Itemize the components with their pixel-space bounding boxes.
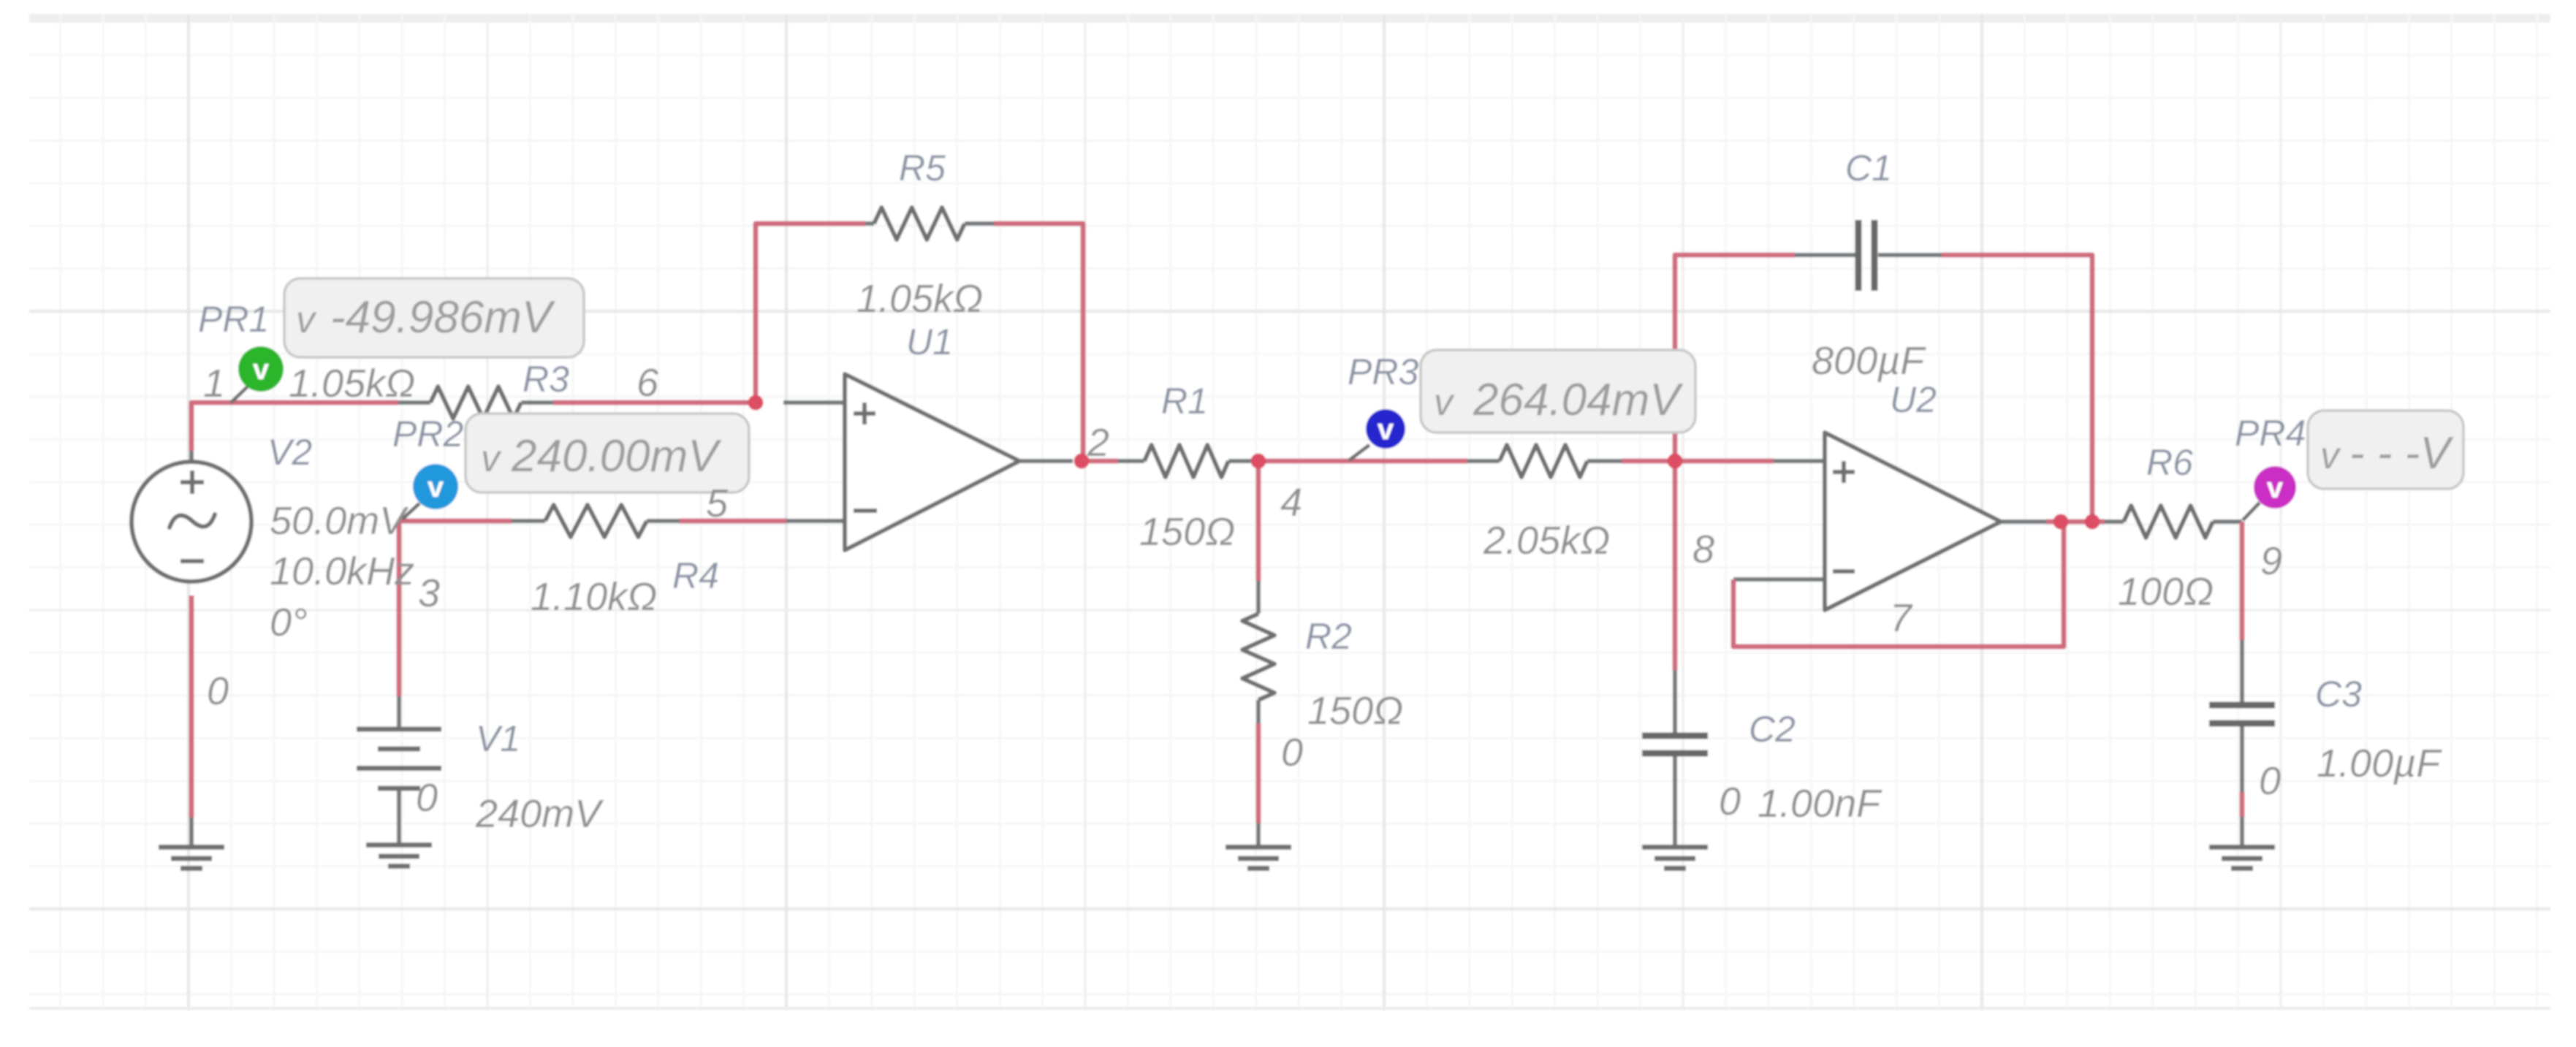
- svg-text:v: v: [253, 354, 270, 386]
- svg-text:0: 0: [1719, 780, 1741, 823]
- svg-text:100Ω: 100Ω: [2118, 570, 2214, 614]
- svg-text:C1: C1: [1845, 148, 1892, 189]
- svg-text:V1: V1: [476, 718, 520, 759]
- svg-text:U1: U1: [906, 321, 953, 362]
- svg-text:PR2: PR2: [392, 414, 463, 454]
- svg-text:PR4: PR4: [2235, 413, 2306, 454]
- svg-text:V2: V2: [267, 432, 312, 473]
- svg-text:10.0kHz: 10.0kHz: [270, 549, 414, 593]
- svg-text:R2: R2: [1305, 616, 1352, 657]
- svg-text:C2: C2: [1749, 709, 1796, 750]
- svg-text:0: 0: [416, 776, 438, 820]
- svg-text:7: 7: [1890, 596, 1913, 640]
- svg-text:1: 1: [203, 362, 225, 406]
- svg-text:8: 8: [1692, 528, 1714, 571]
- svg-text:1.05kΩ: 1.05kΩ: [289, 362, 415, 406]
- svg-text:v: v: [296, 299, 317, 341]
- svg-text:3: 3: [418, 571, 440, 615]
- svg-text:4: 4: [1280, 481, 1302, 525]
- svg-text:9: 9: [2260, 539, 2282, 583]
- svg-text:v: v: [2320, 435, 2341, 477]
- svg-text:1.00nF: 1.00nF: [1758, 782, 1882, 826]
- svg-text:U2: U2: [1890, 379, 1937, 420]
- svg-text:v: v: [1434, 381, 1455, 424]
- svg-text:1.05kΩ: 1.05kΩ: [856, 277, 983, 321]
- svg-text:v: v: [1378, 414, 1394, 446]
- svg-text:0°: 0°: [270, 601, 308, 644]
- svg-text:2.05kΩ: 2.05kΩ: [1483, 519, 1610, 563]
- svg-text:R1: R1: [1161, 381, 1208, 422]
- svg-text:R5: R5: [899, 148, 946, 189]
- svg-text:v: v: [2267, 472, 2284, 504]
- svg-text:0: 0: [207, 669, 229, 713]
- svg-text:R6: R6: [2146, 442, 2193, 483]
- svg-text:240.00mV: 240.00mV: [511, 431, 722, 481]
- svg-text:264.04mV: 264.04mV: [1473, 375, 1684, 425]
- svg-text:5: 5: [706, 481, 729, 525]
- svg-text:800µF: 800µF: [1812, 339, 1926, 383]
- svg-text:50.0mV: 50.0mV: [270, 499, 409, 543]
- svg-text:150Ω: 150Ω: [1307, 689, 1403, 733]
- svg-text:C3: C3: [2315, 674, 2362, 715]
- svg-text:1.10kΩ: 1.10kΩ: [531, 575, 657, 619]
- svg-text:PR3: PR3: [1348, 351, 1418, 392]
- svg-text:v: v: [481, 438, 502, 480]
- svg-text:0: 0: [2259, 759, 2281, 803]
- svg-text:R4: R4: [672, 555, 719, 596]
- svg-text:1.00µF: 1.00µF: [2317, 742, 2442, 785]
- svg-text:0: 0: [1281, 731, 1303, 774]
- svg-text:6: 6: [637, 361, 659, 405]
- svg-text:150Ω: 150Ω: [1139, 510, 1235, 554]
- svg-text:PR1: PR1: [198, 299, 269, 340]
- svg-text:v: v: [428, 471, 444, 503]
- svg-text:240mV: 240mV: [475, 792, 604, 836]
- svg-text:R3: R3: [523, 359, 569, 400]
- svg-text:- - -V: - - -V: [2349, 428, 2454, 479]
- svg-text:2: 2: [1087, 421, 1109, 465]
- svg-text:-49.986mV: -49.986mV: [330, 292, 556, 343]
